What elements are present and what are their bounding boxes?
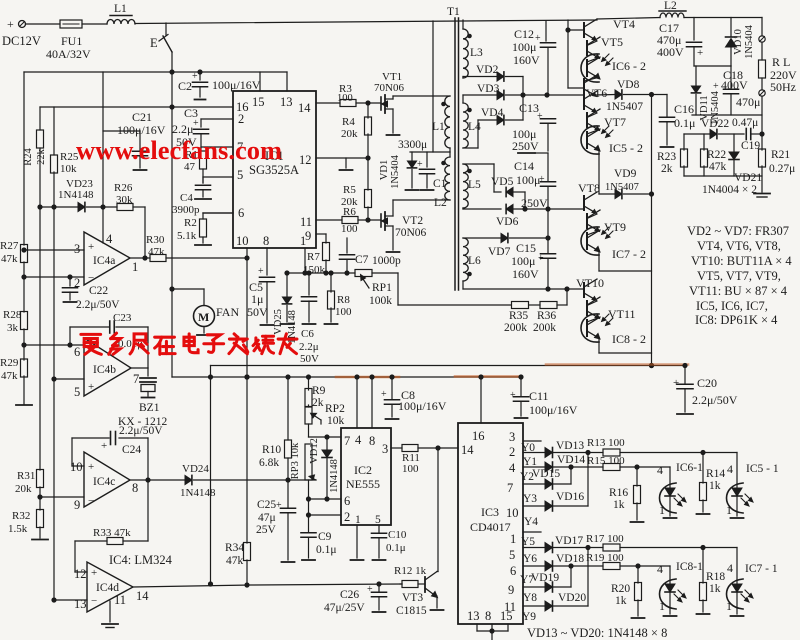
wire <box>23 376 25 404</box>
wire <box>418 447 458 449</box>
svg-text:L2: L2 <box>664 0 677 12</box>
svg-text:VT6: VT6 <box>586 88 607 100</box>
svg-text:+: + <box>673 377 679 389</box>
wire R33 loop <box>75 540 107 542</box>
svg-text:R10: R10 <box>262 444 281 456</box>
wire pin9 row <box>40 496 84 498</box>
resistor R33 47k <box>107 538 123 545</box>
ground pin1 <box>356 525 358 558</box>
svg-text:5: 5 <box>509 548 515 562</box>
wire VT4 collector to L2 <box>597 18 660 20</box>
svg-text:+: + <box>537 111 543 122</box>
svg-text:3300μ: 3300μ <box>398 139 427 151</box>
svg-text:4: 4 <box>355 433 362 447</box>
svg-text:R4: R4 <box>342 116 355 128</box>
svg-text:R14: R14 <box>706 468 725 480</box>
svg-text:1N5407: 1N5407 <box>606 101 643 113</box>
wire group1 out <box>595 94 615 97</box>
diode VD23 1N4148 <box>78 202 85 211</box>
resistor R4 20k <box>367 103 369 118</box>
svg-text:+: + <box>381 389 387 400</box>
svg-text:11: 11 <box>114 593 126 607</box>
capacitor C3 <box>200 119 202 127</box>
svg-text:R7: R7 <box>307 251 320 263</box>
capacitor C7 1000p <box>346 238 348 253</box>
svg-text:2: 2 <box>238 112 244 126</box>
svg-text:3: 3 <box>382 442 388 456</box>
svg-text:+: + <box>192 71 198 82</box>
wire <box>356 102 381 104</box>
svg-text:RP2: RP2 <box>325 403 345 415</box>
svg-text:VD19: VD19 <box>531 572 559 584</box>
svg-text:VD16: VD16 <box>556 491 584 503</box>
watermark chinese text <box>81 328 101 341</box>
svg-text:100μ: 100μ <box>512 40 536 54</box>
winding L3 <box>462 20 464 29</box>
svg-text:4: 4 <box>509 461 516 475</box>
svg-text:8: 8 <box>369 434 375 448</box>
svg-text:IC4b: IC4b <box>93 364 116 376</box>
svg-text:100: 100 <box>402 463 419 475</box>
svg-text:20k: 20k <box>15 483 32 495</box>
wire <box>202 169 204 183</box>
wire <box>367 207 369 220</box>
svg-text:100: 100 <box>337 93 353 104</box>
svg-text:1N5404: 1N5404 <box>744 24 755 59</box>
svg-text:IC5 - 1: IC5 - 1 <box>746 463 779 475</box>
svg-text:C22: C22 <box>89 285 108 297</box>
wire center tap <box>410 151 450 153</box>
svg-text:+: + <box>510 390 516 401</box>
wire bus A <box>211 365 686 367</box>
svg-text:7: 7 <box>133 372 139 386</box>
svg-text:IC5 - 2: IC5 - 2 <box>609 141 643 155</box>
svg-text:RP1: RP1 <box>372 282 392 294</box>
svg-text:13: 13 <box>74 597 87 611</box>
wire pin5 row <box>54 378 84 380</box>
wire <box>513 191 525 193</box>
svg-text:VT10: BUT11A × 4: VT10: BUT11A × 4 <box>691 254 792 268</box>
capacitor C18 400V/470μ <box>730 66 732 88</box>
capacitor C17 470μ/400V <box>693 18 695 41</box>
diode VD4 <box>497 115 504 124</box>
wire pin14 <box>316 102 340 104</box>
diode VD7 <box>501 233 508 242</box>
diode VD18 <box>545 561 553 571</box>
svg-text:50Hz: 50Hz <box>770 80 796 94</box>
svg-text:0.1μ: 0.1μ <box>386 542 406 554</box>
svg-text:30k: 30k <box>116 194 133 206</box>
svg-text:R16: R16 <box>609 487 628 499</box>
svg-text:−: − <box>88 272 94 284</box>
diode VD2 <box>497 72 504 81</box>
svg-text:100μ: 100μ <box>516 173 540 187</box>
resistor R7 150k <box>323 243 330 261</box>
winding L1 primary <box>445 96 450 148</box>
svg-text:+: + <box>7 17 14 31</box>
svg-text:C26: C26 <box>340 589 359 601</box>
optocoupler IC6-2 <box>587 58 599 63</box>
svg-text:2: 2 <box>509 445 515 459</box>
wire <box>39 527 41 538</box>
inductor L2 <box>660 13 684 18</box>
op-amp IC4a <box>84 232 130 285</box>
wire Y7 row <box>523 565 545 567</box>
wire <box>87 206 118 208</box>
svg-text:5: 5 <box>237 168 243 182</box>
svg-text:+: + <box>367 584 373 595</box>
diode VD16 <box>545 501 553 511</box>
svg-text:L6: L6 <box>468 255 481 267</box>
svg-text:T1: T1 <box>447 6 460 18</box>
svg-text:DC12V: DC12V <box>2 34 41 48</box>
diode VD12 1N4148 <box>326 437 328 450</box>
wire VD15 join <box>553 483 572 485</box>
wire pin1 stub <box>304 248 306 273</box>
wire <box>23 329 25 360</box>
wire col x40 mid <box>39 207 41 470</box>
svg-text:470μ: 470μ <box>736 95 760 109</box>
resistor R1 <box>200 151 207 169</box>
svg-text:4: 4 <box>106 232 113 246</box>
diode VD6 <box>506 204 513 213</box>
wire <box>624 193 652 195</box>
svg-text:2: 2 <box>344 510 350 524</box>
svg-text:250V: 250V <box>512 139 539 153</box>
resistor R9 2k <box>308 377 310 390</box>
wire VD17 out <box>553 547 604 549</box>
wire pin2 row <box>24 276 84 278</box>
svg-text:VD24: VD24 <box>182 463 209 475</box>
svg-text:IC4: LM324: IC4: LM324 <box>109 553 173 567</box>
svg-text:IC6-1: IC6-1 <box>676 462 703 474</box>
wire left column <box>23 72 25 245</box>
svg-text:3900p: 3900p <box>172 204 200 216</box>
wire pin13 row <box>54 599 87 601</box>
svg-text:1: 1 <box>355 514 361 526</box>
svg-text:R L: R L <box>772 55 790 69</box>
transistor VT6 <box>584 78 598 82</box>
ground tick pin12 <box>345 158 347 168</box>
svg-text:R23: R23 <box>657 151 676 163</box>
svg-text:C1: C1 <box>433 178 447 190</box>
svg-text:C11: C11 <box>529 389 549 403</box>
svg-text:R15 100: R15 100 <box>587 455 625 467</box>
capacitor C10 0.1μ <box>372 532 387 534</box>
resistor R27 <box>21 245 28 263</box>
capacitor C26 47μ/25V <box>378 584 380 592</box>
optocoupler LED IC6-1 <box>669 467 671 484</box>
svg-text:Y8: Y8 <box>523 592 537 604</box>
svg-text:100: 100 <box>341 223 358 235</box>
wire <box>761 78 763 90</box>
svg-text:13: 13 <box>280 95 293 109</box>
resistor R11 100 <box>402 445 418 452</box>
svg-text:Y9: Y9 <box>522 611 536 623</box>
wire VD6 row <box>462 208 464 209</box>
svg-text:C20: C20 <box>697 376 717 390</box>
wire L6 bottom row <box>462 281 464 289</box>
svg-text:VD9: VD9 <box>614 168 637 180</box>
svg-text:+: + <box>276 500 282 511</box>
svg-text:VD11: VD11 <box>699 95 710 120</box>
resistor R29 <box>21 359 28 377</box>
svg-text:R8: R8 <box>337 294 350 306</box>
svg-text:R21: R21 <box>771 149 790 161</box>
svg-text:3: 3 <box>509 430 515 444</box>
wire VD16 join <box>553 505 589 507</box>
orange mark 2 <box>455 375 520 378</box>
diode VD11 1N5404 <box>695 66 697 86</box>
svg-text:Y3: Y3 <box>523 493 537 505</box>
svg-text:47μ: 47μ <box>258 512 276 524</box>
wire pin8 stub <box>266 248 268 275</box>
wire <box>325 260 327 273</box>
capacitor C2 <box>199 72 201 80</box>
svg-text:1: 1 <box>132 260 138 274</box>
svg-text:4: 4 <box>657 562 663 576</box>
wire pin3 <box>24 249 84 251</box>
wire <box>166 257 247 259</box>
wire pin9 stub <box>316 233 326 235</box>
wire R19 row out <box>620 565 670 567</box>
svg-text:R19 100: R19 100 <box>586 552 624 564</box>
wire <box>513 208 584 210</box>
wire VD4 row <box>463 147 478 149</box>
svg-text:50V: 50V <box>300 353 319 365</box>
svg-text:11: 11 <box>300 215 312 229</box>
wire col x103 <box>102 72 104 207</box>
svg-text:R5: R5 <box>343 184 356 196</box>
wire IC4b out <box>131 367 148 369</box>
svg-text:70N06: 70N06 <box>395 227 427 239</box>
svg-text:R26: R26 <box>114 182 133 194</box>
transistor VT10 <box>583 283 585 297</box>
svg-text:1N5404: 1N5404 <box>390 154 401 189</box>
wire mid column <box>210 377 212 584</box>
IC1 SG3525A box <box>233 91 316 248</box>
svg-text:IC4d: IC4d <box>96 582 119 594</box>
optocoupler IC5-2 <box>587 130 599 135</box>
resistor R31 <box>37 470 44 488</box>
wire second rail y107 <box>40 106 233 108</box>
svg-text:+: + <box>101 440 107 452</box>
wire <box>510 237 549 239</box>
svg-text:2k: 2k <box>312 397 324 409</box>
svg-text:12: 12 <box>299 153 312 167</box>
svg-text:IC7 - 1: IC7 - 1 <box>745 563 778 575</box>
svg-text:10k: 10k <box>327 415 345 427</box>
resistor R8 100 <box>330 273 332 292</box>
wire Y1 row <box>523 452 545 454</box>
svg-text:4: 4 <box>727 462 733 476</box>
wire Y4 row <box>523 505 545 507</box>
wire C21 branch <box>103 130 140 132</box>
svg-text:1N4004 × 2: 1N4004 × 2 <box>702 184 757 196</box>
svg-text:R17 100: R17 100 <box>586 533 624 545</box>
svg-text:+: + <box>88 381 94 393</box>
capacitor C4 <box>196 184 211 186</box>
svg-text:L5: L5 <box>468 179 481 191</box>
svg-text:0.47μ: 0.47μ <box>732 117 758 129</box>
svg-text:VD3: VD3 <box>477 83 500 95</box>
svg-text:7: 7 <box>344 434 350 448</box>
svg-text:2k: 2k <box>661 163 673 175</box>
svg-text:C7: C7 <box>355 254 369 266</box>
svg-text:70N06: 70N06 <box>374 82 404 94</box>
switch E <box>165 23 167 35</box>
svg-text:C14: C14 <box>514 159 534 173</box>
MOSFET VT2 70N06 <box>380 214 382 227</box>
svg-text:0.1μ: 0.1μ <box>316 544 337 556</box>
winding L6 <box>463 238 468 281</box>
wire R13 row out <box>620 452 737 454</box>
svg-text:22k: 22k <box>36 148 47 165</box>
optocoupler IC8-2 <box>587 318 599 323</box>
svg-text:R9: R9 <box>312 385 326 397</box>
diode VD24 1N4148 <box>185 475 192 484</box>
svg-text:R35: R35 <box>509 310 528 322</box>
wire pin6 row <box>24 344 84 346</box>
wire bus B <box>172 376 521 378</box>
diode VD22 <box>710 129 717 138</box>
capacitor C20 2.2μ/50V <box>684 366 686 384</box>
svg-text:47k: 47k <box>148 246 165 258</box>
resistor R25 <box>51 155 58 173</box>
transistor VT5 <box>587 41 597 46</box>
potentiometer RP3 10k <box>305 444 312 480</box>
wire VD14 out <box>553 466 604 468</box>
wire pin5 stub <box>378 525 380 533</box>
wire pin8 stub <box>371 377 373 428</box>
svg-text:+: + <box>91 567 97 579</box>
svg-text:14: 14 <box>136 589 149 603</box>
svg-text:R24: R24 <box>23 148 34 166</box>
svg-text:VD7: VD7 <box>488 246 511 258</box>
svg-text:Y1: Y1 <box>523 456 537 468</box>
svg-text:R33 47k: R33 47k <box>93 527 131 539</box>
wire <box>652 94 668 96</box>
wire Y9 row <box>523 605 545 607</box>
svg-text:0.1μ: 0.1μ <box>674 116 695 130</box>
diode VD13 <box>545 448 553 458</box>
resistor R21 0.27μ <box>759 149 766 167</box>
svg-text:VD10: VD10 <box>733 29 744 55</box>
svg-text:9: 9 <box>305 229 311 243</box>
winding L4 <box>462 95 464 103</box>
svg-text:Y4: Y4 <box>524 516 538 528</box>
wire pin2 row <box>309 514 342 516</box>
transistor G2 upper <box>583 95 585 109</box>
wire RP1 to R35 <box>397 273 399 305</box>
svg-text:R12 1k: R12 1k <box>394 565 427 577</box>
wire <box>82 23 107 25</box>
svg-text:L1: L1 <box>432 121 445 133</box>
wire <box>308 480 310 499</box>
resistor R13 100 <box>603 449 620 456</box>
svg-text:C12: C12 <box>514 27 534 41</box>
svg-text:VD20: VD20 <box>558 592 586 604</box>
potentiometer RP1 100k <box>355 270 372 277</box>
inductor L1 <box>107 20 135 25</box>
resistor R34 47k <box>244 543 251 561</box>
svg-text:15: 15 <box>500 609 513 623</box>
wire IC3 bottom pins <box>476 624 478 631</box>
svg-text:9: 9 <box>508 583 514 597</box>
resistor R26 30k <box>117 204 133 211</box>
svg-text:+: + <box>538 253 544 264</box>
svg-text:2.2μ/50V: 2.2μ/50V <box>692 393 738 407</box>
svg-text:8: 8 <box>132 481 138 495</box>
capacitor C16 0.1μ <box>666 95 668 118</box>
svg-text:R13 100: R13 100 <box>587 437 625 449</box>
wire group3 out <box>598 251 600 272</box>
wire <box>308 424 310 437</box>
svg-text:+: + <box>88 241 94 253</box>
svg-text:VD13: VD13 <box>556 440 584 452</box>
svg-text:C19: C19 <box>741 140 760 152</box>
wire Y2 row <box>523 466 545 468</box>
resistor R30 47k <box>150 255 166 262</box>
svg-text:6.8k: 6.8k <box>259 457 279 469</box>
svg-text:R29: R29 <box>0 357 19 369</box>
wire VT4 bias column <box>567 20 569 88</box>
svg-text:L4: L4 <box>468 121 481 133</box>
MOSFET VT1 70N06 <box>380 97 382 110</box>
svg-text:IC4c: IC4c <box>93 476 115 488</box>
wire bus y273 <box>287 272 355 274</box>
svg-text:VT5, VT7, VT9,: VT5, VT7, VT9, <box>697 269 781 283</box>
svg-text:VT5: VT5 <box>601 35 623 49</box>
svg-text:1k: 1k <box>709 583 721 595</box>
resistor R2 5.1k <box>203 212 233 214</box>
svg-text:R31: R31 <box>17 470 35 482</box>
resistor R35 200k <box>512 302 529 309</box>
svg-text:R36: R36 <box>537 310 556 322</box>
svg-text:1: 1 <box>726 599 732 613</box>
svg-text:160V: 160V <box>512 267 539 281</box>
svg-text:1: 1 <box>659 599 665 613</box>
transistor VT3 C1815 <box>424 577 426 592</box>
diode VD3 <box>497 90 504 99</box>
capacitor C21 <box>139 131 141 150</box>
wire <box>133 206 145 208</box>
svg-text:25V: 25V <box>256 524 277 536</box>
svg-text:VD15: VD15 <box>532 468 560 480</box>
svg-text:M: M <box>198 310 209 324</box>
svg-text:C23: C23 <box>113 312 132 324</box>
svg-text:VD4: VD4 <box>481 107 504 119</box>
wire top rail <box>135 20 597 24</box>
wire bus connector <box>210 366 212 378</box>
winding L5 <box>463 164 468 208</box>
svg-text:3k: 3k <box>7 322 19 334</box>
buzzer BZ1 <box>147 368 149 376</box>
svg-text:4: 4 <box>657 463 663 477</box>
wire VD18 out <box>553 565 604 567</box>
svg-text:E: E <box>150 36 158 50</box>
wire pin4 stub <box>356 377 358 428</box>
svg-text:C1815: C1815 <box>396 605 427 617</box>
svg-text:1N5407: 1N5407 <box>605 182 639 193</box>
wire <box>506 76 524 78</box>
svg-text:C15: C15 <box>516 241 536 255</box>
IC3 pin 3 stub Y0 <box>523 440 541 442</box>
svg-text:14: 14 <box>461 443 474 457</box>
svg-text:8: 8 <box>485 609 491 623</box>
wire VD20 join <box>553 605 589 607</box>
wire <box>506 119 524 121</box>
